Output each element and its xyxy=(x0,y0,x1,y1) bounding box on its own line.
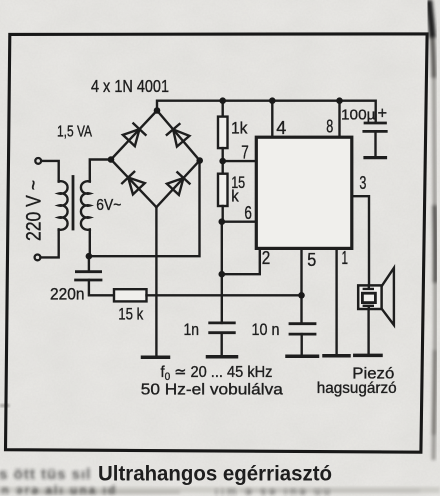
svg-text:220n: 220n xyxy=(50,285,85,303)
piezo top electrode xyxy=(364,285,373,289)
transformer secondary winding xyxy=(81,181,90,230)
ground bar under pin1 xyxy=(324,354,349,358)
svg-text:ıım ə sə ınə uu: ıım ə sə ınə uu xyxy=(215,486,333,496)
IC U1 body xyxy=(256,137,352,248)
positive supply rail wire xyxy=(157,101,376,123)
svg-text:4 x 1N 4001: 4 x 1N 4001 xyxy=(91,76,169,96)
ground bar under C3 xyxy=(287,354,318,358)
transformer primary winding xyxy=(59,181,68,230)
wire pin3 to piezo xyxy=(352,196,369,285)
wire bridge bottom to ground xyxy=(155,207,157,356)
wire secondary top to bridge left node xyxy=(90,160,111,182)
node pin6 xyxy=(219,218,226,225)
wire pin1 down xyxy=(335,249,337,355)
node bridge top xyxy=(154,107,161,114)
node pin5 xyxy=(298,292,305,299)
wire R3 to pin5 node xyxy=(147,294,302,296)
resistor R2 15k vertical xyxy=(221,161,223,174)
node bridge left xyxy=(108,156,115,163)
svg-text:10 n: 10 n xyxy=(252,320,280,339)
wire primary bottom to mains bottom xyxy=(41,230,59,258)
bridge arm bottom-right wire xyxy=(156,161,199,208)
ground bar under bridge xyxy=(143,355,169,359)
diode D3 bottom-left xyxy=(122,172,145,195)
right page-edge scan artifact xyxy=(429,0,435,460)
svg-text:3: 3 xyxy=(359,173,366,193)
ground bar under C4 xyxy=(365,156,386,159)
piezo horn xyxy=(382,268,394,325)
piezo element xyxy=(362,293,375,302)
capacitor C2 1n xyxy=(210,321,235,324)
piezo speaker LS1 box xyxy=(358,285,381,309)
junction dots xyxy=(86,97,343,298)
resistor R3 15k horizontal xyxy=(114,289,147,301)
svg-text:6V~: 6V~ xyxy=(96,197,121,214)
bottom page smudge band xyxy=(0,487,440,494)
node secondary bottom xyxy=(86,253,93,260)
wire pin6 xyxy=(222,220,256,222)
svg-text:Ultrahangos egérriasztó: Ultrahangos egérriasztó xyxy=(98,462,332,486)
svg-text:6: 6 xyxy=(244,203,252,223)
bridge arm left-top wire xyxy=(111,111,157,160)
svg-text:1k: 1k xyxy=(231,119,248,138)
wire pin2 xyxy=(222,249,260,275)
svg-text:100µ: 100µ xyxy=(341,107,376,124)
piezo bottom electrode xyxy=(364,306,373,309)
transformer core xyxy=(72,177,75,230)
wire pin4 stub xyxy=(271,101,273,138)
svg-text:7: 7 xyxy=(241,143,249,163)
svg-text:+: + xyxy=(378,105,388,123)
svg-text:2: 2 xyxy=(262,248,271,268)
capacitor C3 10n xyxy=(290,322,315,325)
ground bar under C2 xyxy=(208,355,237,359)
wire piezo to ground xyxy=(367,309,369,354)
svg-text:4: 4 xyxy=(276,118,286,138)
node bridge right xyxy=(196,157,203,164)
node pin7 xyxy=(219,158,226,165)
wire secondary bottom to node xyxy=(89,230,91,257)
svg-text:hagsugárzó: hagsugárzó xyxy=(317,380,397,397)
svg-text:5: 5 xyxy=(307,250,316,270)
diode D2 top-right xyxy=(167,124,190,147)
diode D1 top-left xyxy=(123,123,146,146)
diode D4 bottom-right xyxy=(167,172,190,195)
svg-text:1: 1 xyxy=(342,248,349,268)
node rail R1 xyxy=(219,97,226,104)
wire mains top to primary xyxy=(41,161,58,182)
svg-text:f0 ≃ 20 ... 45 kHz: f0 ≃ 20 ... 45 kHz xyxy=(161,364,273,383)
mains terminal bottom xyxy=(35,255,41,261)
svg-text:ıs ött tüs sıl: ıs ött tüs sıl xyxy=(0,466,91,483)
bridge arm top-right wire xyxy=(157,111,200,161)
capacitor C1 220n xyxy=(88,256,90,272)
wire pin5 down xyxy=(300,249,302,324)
bridge arm left-bottom wire xyxy=(111,160,156,208)
svg-text:50 Hz-el vobulálva: 50 Hz-el vobulálva xyxy=(141,381,283,398)
ground bar under piezo xyxy=(355,354,381,358)
ghost show-through text bottom-left xyxy=(0,466,333,496)
wire pin8 stub xyxy=(338,101,340,138)
node rail pin8 xyxy=(336,97,343,104)
wire AC return from secondary to bridge right xyxy=(89,161,200,257)
node pin2 xyxy=(219,271,226,278)
svg-text:15 k: 15 k xyxy=(118,304,143,323)
svg-text:1,5 VA: 1,5 VA xyxy=(57,124,92,141)
wire pin7 xyxy=(223,160,257,162)
mains terminal top xyxy=(35,158,41,164)
svg-text:k: k xyxy=(231,186,239,205)
wire mid vertical node to C2 xyxy=(221,222,223,323)
svg-text:220 V ~: 220 V ~ xyxy=(23,180,46,241)
capacitor C4 100u xyxy=(365,122,386,125)
svg-text:8: 8 xyxy=(326,116,333,136)
ghost notch left edge xyxy=(0,404,10,407)
svg-text:1n: 1n xyxy=(184,320,200,339)
resistor R1 1k xyxy=(221,101,223,117)
node rail pin4 xyxy=(269,97,276,104)
